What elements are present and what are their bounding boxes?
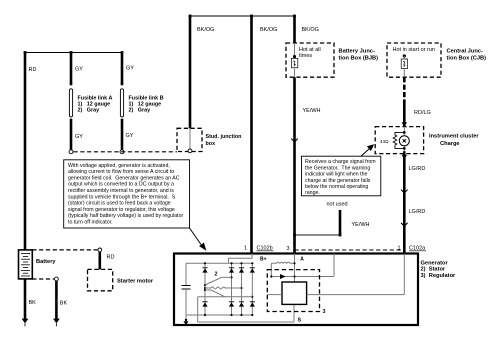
svg-text:Fusible link B: Fusible link B	[129, 96, 164, 102]
instrument cluster box	[375, 127, 479, 154]
svg-text:BK/OG: BK/OG	[197, 27, 214, 33]
diode column 4	[250, 262, 255, 316]
callout: generator operation	[64, 160, 190, 228]
svg-text:Central Junc-: Central Junc-	[447, 49, 483, 55]
wire GY upper (fuse link B feed)	[121, 53, 135, 139]
arrow on LG/RD wire lower	[401, 223, 408, 226]
label CJB	[447, 49, 487, 62]
wire BK/OG no.2 (generator B+)	[252, 16, 278, 254]
svg-text:3) Regulator: 3) Regulator	[421, 273, 457, 279]
wire BK/OG no.1 (to stud junction box)	[190, 16, 214, 128]
svg-text:supplied to vehicle through th: supplied to vehicle through the B+ termi…	[68, 194, 176, 200]
svg-text:BK/OG: BK/OG	[260, 27, 277, 33]
svg-text:3: 3	[323, 309, 326, 315]
svg-text:RD: RD	[107, 255, 115, 261]
svg-text:BK/OG: BK/OG	[302, 27, 319, 33]
svg-text:RD/LG: RD/LG	[414, 110, 431, 116]
arrow entering cluster	[402, 122, 407, 127]
diode column 2	[229, 262, 234, 316]
regulator dashed box (3)	[267, 270, 325, 315]
wire dashed link to stud junction box	[74, 151, 178, 153]
fusible link A	[69, 89, 112, 121]
svg-text:LG/RD: LG/RD	[409, 209, 426, 215]
svg-text:not used: not used	[327, 202, 348, 208]
wire GY upper (fuse link A feed)	[70, 53, 84, 140]
svg-text:GY: GY	[75, 67, 83, 73]
resistor parallel with lamp	[380, 131, 406, 149]
svg-text:charge at the generator falls: charge at the generator falls	[305, 178, 371, 184]
svg-text:rectifier assembly internal to: rectifier assembly internal to generator…	[68, 188, 174, 194]
svg-text:Starter motor: Starter motor	[117, 279, 154, 285]
svg-text:GY: GY	[126, 66, 134, 72]
connector C102 dashed tie	[295, 249, 402, 251]
stator windings (2)	[205, 272, 242, 297]
fuse in CJB	[401, 54, 407, 77]
arrow on LG/RD wire upper	[401, 190, 408, 193]
pin 1 C102a	[398, 246, 427, 252]
ground G2	[53, 319, 60, 327]
wire GY lower A	[69, 121, 73, 154]
svg-text:(stator) circuit is used to fe: (stator) circuit is used to feed back a …	[68, 201, 171, 207]
battery	[19, 250, 57, 279]
svg-text:YE/WH: YE/WH	[352, 222, 370, 228]
svg-text:2) Gray: 2) Gray	[78, 108, 100, 114]
stud junction box	[177, 128, 241, 152]
wire RD battery positive	[25, 53, 36, 250]
svg-text:indicator will light when the: indicator will light when the	[305, 172, 368, 178]
generator box	[174, 254, 418, 326]
svg-text:Battery Junc-: Battery Junc-	[339, 49, 375, 55]
case ground stub	[185, 315, 187, 320]
diode column 3	[239, 262, 244, 316]
svg-text:3: 3	[287, 246, 290, 252]
regulator left stub	[267, 294, 282, 296]
svg-text:1: 1	[398, 246, 401, 252]
svg-text:Instrument cluster: Instrument cluster	[429, 134, 479, 140]
svg-text:tion Box (BJB): tion Box (BJB)	[339, 56, 379, 62]
central junction box CJB	[387, 43, 441, 77]
wire GY lower B	[120, 121, 124, 154]
wire dashed battery negative branch	[32, 277, 58, 281]
wire LG/RD (cluster down to generator)	[402, 151, 426, 253]
svg-text:GY: GY	[126, 133, 134, 139]
diode column 1	[202, 262, 207, 316]
field drive row with arrow	[270, 254, 334, 280]
svg-text:B+: B+	[260, 257, 267, 263]
wire BK battery negative	[25, 279, 36, 319]
node BK/OG rail (top)	[189, 15, 296, 18]
node battery feed rail (top-left)	[24, 51, 124, 54]
svg-text:times: times	[299, 53, 312, 59]
arrow from callout to cluster	[361, 144, 374, 156]
svg-text:signal from generator to regul: signal from generator to regulator, this…	[68, 207, 175, 213]
svg-text:1: 1	[244, 246, 247, 252]
svg-text:S: S	[298, 318, 302, 324]
svg-text:range.: range.	[305, 190, 320, 196]
svg-text:BK: BK	[29, 300, 37, 306]
svg-text:(typically half battery voltag: (typically half battery voltage) is used…	[68, 213, 184, 219]
svg-text:to turn off indicator.: to turn off indicator.	[68, 220, 113, 226]
svg-text:below the normal operating: below the normal operating	[305, 184, 368, 190]
pin 1 C102b	[244, 246, 274, 252]
svg-text:LG/RD: LG/RD	[409, 166, 426, 172]
wire A sense into regulator	[293, 254, 295, 283]
svg-text:44Ω: 44Ω	[380, 139, 389, 144]
starter motor box	[88, 269, 154, 290]
wire RD starter feed	[100, 252, 115, 270]
svg-text:Hot in start or run: Hot in start or run	[393, 47, 436, 53]
regulator output to C102a pin 1	[307, 254, 405, 295]
capacitor C	[185, 263, 187, 285]
svg-text:Stud. junction: Stud. junction	[206, 134, 242, 140]
rectifier bottom rail	[186, 314, 252, 316]
svg-text:generator field coil. Generat: generator field coil. Generator generate…	[68, 175, 180, 181]
regulator U (solid box)	[282, 282, 307, 304]
svg-text:Battery: Battery	[36, 259, 56, 265]
svg-text:Fusible link A: Fusible link A	[78, 96, 113, 102]
not used stub	[293, 202, 369, 237]
wire BK/OG no.3 (to BJB)	[295, 16, 319, 43]
svg-text:GY: GY	[75, 134, 83, 140]
svg-text:Charge: Charge	[440, 141, 460, 147]
ground G1	[22, 319, 29, 327]
charge indicator lamp	[399, 127, 409, 154]
callout: receives charge signal	[302, 156, 381, 196]
wire BK second ground	[56, 281, 67, 319]
arrow on YE/WH wire	[291, 139, 298, 142]
generator internals	[182, 254, 253, 326]
svg-text:RD: RD	[29, 67, 37, 73]
svg-text:YE/WH: YE/WH	[303, 108, 321, 114]
fuse in BJB	[291, 43, 297, 77]
wire YE/WH (BJB down to generator pin 3)	[295, 77, 321, 253]
label generator legend	[421, 260, 457, 279]
svg-text:2: 2	[215, 272, 218, 278]
wire RD/LG (CJB to cluster)	[404, 77, 431, 126]
svg-text:allowing current to flow from: allowing current to flow from sense A ci…	[68, 169, 174, 175]
svg-text:output which is converted to a: output which is converted to a DC output…	[68, 182, 174, 188]
B+ feed jog	[228, 254, 252, 264]
rectifier top rail	[186, 262, 252, 264]
svg-text:BK: BK	[60, 301, 68, 307]
stator S tap wire	[198, 297, 302, 324]
field coil	[271, 262, 294, 276]
svg-text:A: A	[300, 257, 304, 263]
fusible link B	[120, 89, 163, 121]
svg-text:2) Gray: 2) Gray	[129, 108, 151, 114]
svg-text:With voltage applied, generato: With voltage applied, generator is activ…	[68, 163, 170, 169]
svg-text:box: box	[206, 141, 216, 147]
battery junction box BJB	[286, 43, 334, 77]
wire dashed battery to starter	[32, 248, 101, 252]
svg-text:2) Stator: 2) Stator	[421, 267, 446, 273]
svg-text:tion Box (CJB): tion Box (CJB)	[447, 56, 487, 62]
arrow from callout to generator	[190, 228, 207, 251]
svg-text:the Generator. The warning: the Generator. The warning	[305, 165, 370, 171]
svg-text:Generator: Generator	[421, 260, 449, 266]
svg-text:Receives a charge signal from: Receives a charge signal from	[305, 159, 376, 165]
label BJB	[339, 49, 379, 62]
